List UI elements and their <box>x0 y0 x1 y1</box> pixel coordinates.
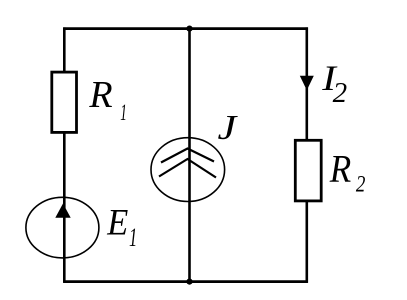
node: top junction dot <box>186 26 192 32</box>
svg-text:J: J <box>218 109 239 147</box>
wire: top horizontal bus <box>63 27 308 30</box>
svg-text:2: 2 <box>356 171 366 197</box>
resistor R2 body <box>295 140 321 201</box>
wire: left branch lower segment (through E1) <box>63 132 66 283</box>
current source J lower chevron <box>159 159 216 178</box>
svg-text:1: 1 <box>120 100 127 126</box>
svg-text:E: E <box>106 201 128 242</box>
EMF source E1 arrow <box>55 204 70 218</box>
svg-text:2: 2 <box>333 77 348 109</box>
svg-text:1: 1 <box>129 222 137 252</box>
resistor R1 body <box>52 72 77 132</box>
wire: bottom horizontal bus <box>63 280 308 283</box>
wire: right branch upper segment <box>305 27 308 140</box>
svg-text:R: R <box>329 148 352 191</box>
svg-text:R: R <box>88 74 112 116</box>
current source J upper chevron <box>161 149 214 163</box>
EMF source E1 body <box>26 197 99 258</box>
wire: middle branch (through J) <box>188 27 191 282</box>
wire: right branch lower segment <box>305 201 308 283</box>
wire: left branch upper segment <box>63 27 66 72</box>
node: bottom junction dot <box>186 279 192 285</box>
current source J body <box>151 138 225 202</box>
current arrow I2 <box>300 76 314 90</box>
